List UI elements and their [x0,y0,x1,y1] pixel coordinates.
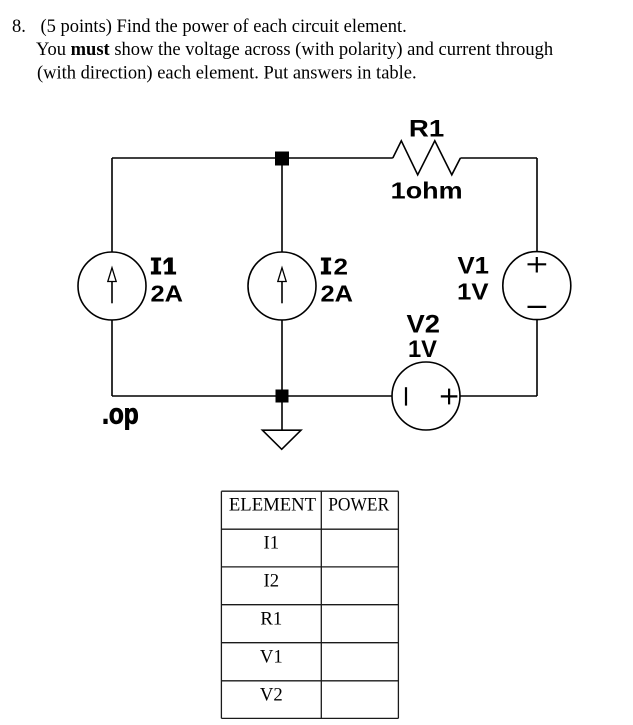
svg-text:I1: I1 [264,533,280,554]
svg-text:POWER: POWER [328,494,389,515]
svg-text:R1: R1 [409,115,444,142]
svg-text:2A: 2A [321,280,354,306]
svg-text:V2: V2 [407,311,441,339]
svg-text:I2: I2 [264,570,280,591]
svg-text:V2: V2 [260,685,283,706]
svg-text:You must show the voltage acro: You must show the voltage across (with p… [36,40,553,60]
svg-text:ELEMENT: ELEMENT [229,494,317,515]
svg-text:V1: V1 [458,253,490,280]
svg-text:2: 2 [334,254,349,280]
svg-text:.op: .op [102,398,139,430]
svg-text:1ohm: 1ohm [391,177,463,203]
svg-text:V1: V1 [260,646,283,667]
svg-text:2A: 2A [151,280,184,306]
svg-text:R1: R1 [260,608,282,629]
svg-text:(with direction) each element.: (with direction) each element. Put answe… [37,64,417,84]
svg-text:1V: 1V [408,336,438,363]
svg-text:8.: 8. [12,17,26,37]
svg-text:1V: 1V [457,279,489,305]
svg-text:(5 points) Find the power of e: (5 points) Find the power of each circui… [41,17,407,37]
